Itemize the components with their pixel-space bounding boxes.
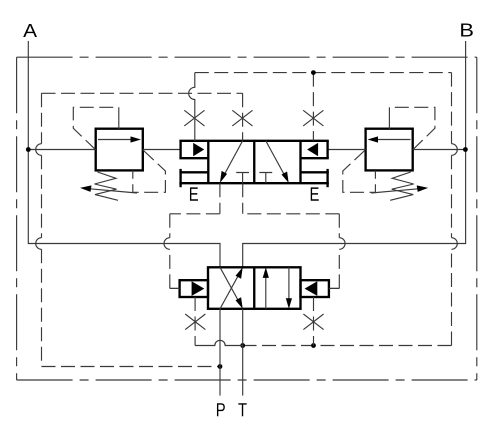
relief valve RV2 adjust arrow (371, 185, 428, 193)
drain line Y right side vertical (dashed, hops B lines) (452, 73, 458, 346)
solenoid S2 lower bracket (301, 169, 329, 187)
svg-text:E: E (189, 183, 199, 206)
junction dot on B (463, 147, 468, 152)
main valve V2 body (208, 267, 301, 309)
wire RV2 output to pilot valve (328, 149, 366, 151)
pilot line to left actuator of main valve (dashed, hops A feed) (164, 183, 220, 288)
relief valve RV1 adjust arrow (80, 185, 137, 193)
orifice X5 (303, 314, 323, 330)
relief valve RV1 spring (95, 172, 119, 200)
wire RV1 output to pilot valve (143, 149, 181, 151)
junction dot drain at X5 stub (311, 343, 316, 348)
wire solenoid S2 drain up (dashed) (312, 73, 314, 141)
svg-text:T: T (238, 399, 247, 420)
manifold boundary chain-line box (17, 57, 477, 380)
drain line Y bottom run to T (243, 345, 452, 347)
relief valve RV1 drain loop (133, 151, 166, 193)
wire T port line (242, 309, 244, 396)
pilot valve V1 right position arrow (266, 141, 289, 183)
junction dot supply at P (218, 364, 223, 369)
solenoid S2 triangle (307, 143, 318, 156)
junction dot on A (26, 147, 31, 152)
wire solenoid S1 drain up (solid, hops supply dash line) (189, 73, 195, 141)
relief valve RV1 body (96, 129, 143, 171)
relief valve RV1 pilot line (73, 107, 119, 150)
pilot line to right actuator of main valve (dashed, hops B feed) (243, 183, 345, 288)
pilot valve V1 left blocked port T-symbol (236, 173, 249, 184)
wire B port line (243, 41, 466, 268)
drain left run to T (hops P line) (195, 340, 243, 345)
svg-text:B: B (459, 20, 474, 41)
svg-text:E: E (309, 183, 319, 206)
wire relief RV2 input from B (413, 149, 466, 151)
relief valve RV2 drain loop (343, 151, 376, 193)
relief valve RV2 body (366, 129, 413, 171)
main valve V2 crossed arrow 2 (to upper right) (220, 267, 243, 309)
pilot actuator right triangle (305, 281, 318, 296)
orifice X1 (184, 110, 204, 126)
drain header line Y (dashed, top) (195, 72, 452, 74)
junction dot drain header (311, 70, 316, 75)
solenoid S1 lower bracket (179, 169, 208, 187)
svg-text:A: A (23, 21, 38, 42)
orifice X2 (232, 110, 252, 126)
pilot supply branch through X2 (dashed) (242, 93, 244, 141)
pilot actuator box left (main valve) (180, 280, 208, 297)
pilot valve V1 right blocked port T-symbol (259, 173, 272, 184)
drain stub right actuator through X5 (dashed) (313, 297, 315, 346)
wire P port line (219, 309, 221, 396)
solenoid S1 triangle (193, 143, 204, 156)
drain stub left actuator through X4 (dashed) (194, 297, 196, 346)
main valve V2 straight arrow up (263, 267, 269, 309)
main valve V2 straight arrow down (286, 267, 292, 309)
orifice X4 (185, 314, 205, 330)
solenoid S1 box (left, pilot valve) (179, 141, 208, 158)
relief valve RV1 flow arrow (98, 136, 141, 142)
junction dot drain into T (240, 343, 245, 348)
pilot supply line X from P (dashed, hops A lines) (36, 93, 243, 366)
wire relief RV1 input from A (28, 149, 95, 151)
svg-text:P: P (216, 399, 226, 420)
main valve V2 crossed arrow 1 (to lower right) (220, 267, 243, 309)
wire actuator right stub (329, 287, 339, 289)
pilot valve V1 left position arrow (220, 141, 243, 183)
relief valve RV2 pilot line (389, 107, 435, 150)
relief valve RV2 flow arrow (368, 136, 411, 142)
wire actuator left stub (170, 287, 180, 289)
orifice X3 (303, 110, 323, 126)
solenoid S2 box (right, pilot valve) (301, 141, 329, 158)
wire A port line (28, 41, 220, 268)
pilot actuator box right (main valve) (301, 280, 329, 297)
pilot actuator left triangle (192, 281, 205, 296)
pilot valve V1 body (179, 141, 328, 183)
relief valve RV2 spring (390, 172, 414, 200)
